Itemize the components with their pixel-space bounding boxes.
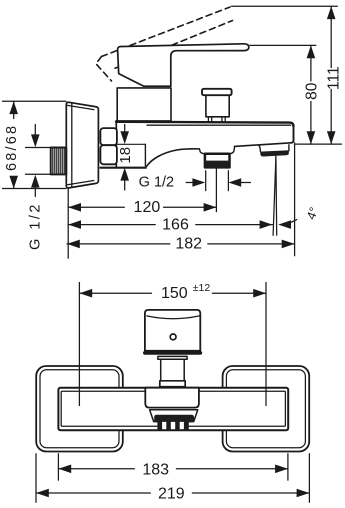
svg-text:18: 18: [117, 147, 134, 164]
aerator dark band: [205, 161, 230, 168]
escutcheon inner vertical line: [71, 103, 73, 187]
aerator edge extension lines: [205, 171, 207, 191]
dimension 111: [330, 6, 332, 144]
escutcheon inner top slant: [68, 105, 94, 109]
svg-text:111: 111: [325, 66, 342, 90]
pipe thread hatching: [53, 148, 65, 173]
right wall escutcheon front: [223, 366, 310, 452]
aerator ring: [205, 154, 230, 168]
dimension 18 leader: [124, 125, 126, 191]
body crossbar: [58, 388, 288, 431]
opposing arrow for 166 at 4deg lines: [278, 220, 291, 229]
150 extension lines: [78, 283, 80, 406]
svg-text:183: 183: [142, 462, 169, 479]
dimension 166: [68, 224, 272, 226]
body right extension line: [294, 143, 296, 256]
spout underside curve: [147, 149, 200, 166]
faucet body top edge: [116, 122, 294, 127]
svg-text:G 1/2: G 1/2: [139, 175, 174, 191]
dimension 150: [79, 292, 266, 294]
neck flare: [160, 381, 185, 387]
outlet lip right edge: [288, 145, 290, 151]
right escutcheon inner line: [226, 370, 305, 448]
svg-text:±12: ±12: [193, 282, 211, 294]
svg-text:166: 166: [162, 217, 189, 234]
body bottom slanted edge: [235, 143, 292, 147]
lower section bottom edge: [101, 167, 146, 169]
extension line from lever top: [250, 44, 316, 46]
escutcheon inner bottom slant: [68, 181, 94, 185]
dimension 68/68: [13, 101, 15, 188]
svg-text:80: 80: [304, 82, 321, 100]
219 extension lines: [35, 454, 37, 503]
G 1/2 aerator arrows: [186, 182, 197, 184]
svg-text:219: 219: [158, 486, 185, 503]
svg-text:150: 150: [161, 285, 188, 302]
mixer handle front: [145, 310, 200, 351]
aerator slot right: [180, 422, 184, 429]
pipe bottom extension line: [26, 173, 51, 175]
aerator flange: [199, 149, 204, 154]
hex nut lower flat: [100, 145, 117, 164]
wall face extension line: [67, 189, 69, 259]
G 1/2 threaded pipe: [51, 148, 67, 175]
body inner top line: [147, 124, 291, 126]
handle top inner arc: [147, 316, 200, 319]
4 degree indicator lines: [275, 156, 278, 235]
neck: [161, 359, 185, 381]
pipe top extension line: [26, 147, 51, 149]
dashed raised lever outline: [96, 7, 233, 81]
left bottom extension line: [3, 188, 67, 190]
svg-text:182: 182: [175, 236, 202, 253]
dimension 182: [67, 243, 295, 245]
diverter knob cap: [202, 89, 232, 95]
outlet lip dark band: [260, 150, 289, 156]
right base extension line: [295, 143, 342, 145]
diverter knob body: [206, 95, 229, 117]
body right edge: [291, 125, 294, 143]
spout lip front outline: [150, 410, 198, 422]
cartridge collar under handle: [117, 88, 171, 121]
diverter knob feet: [208, 117, 225, 123]
left top extension line: [3, 100, 67, 102]
svg-text:4°: 4°: [304, 205, 321, 221]
handle marker dot: [170, 334, 176, 340]
left escutcheon inner line: [40, 370, 119, 448]
outlet lip left edge: [259, 145, 261, 151]
G 1/2 leader left: [34, 125, 36, 197]
svg-text:120: 120: [134, 199, 161, 216]
dimension 120: [68, 206, 216, 208]
svg-text:68/68: 68/68: [4, 124, 20, 171]
body left edge: [115, 121, 117, 168]
dimension 80: [310, 45, 312, 144]
center housing box: [145, 388, 199, 408]
spout root vertical: [144, 144, 146, 166]
dimension 219: [36, 492, 309, 494]
aerator slot center: [171, 422, 175, 429]
handle bottom thick edge: [145, 351, 200, 355]
left wall escutcheon front: [36, 366, 123, 452]
svg-text:G 1/2: G 1/2: [28, 202, 44, 250]
dimension 183: [58, 468, 288, 470]
neck flange: [158, 356, 187, 359]
aerator front dark: [157, 420, 188, 430]
extension line from raised lever tip: [232, 5, 338, 7]
183 extension lines: [57, 454, 59, 480]
crossbar inner outline: [61, 391, 285, 426]
wall escutcheon side view: [66, 102, 98, 188]
aerator slot left: [162, 422, 166, 429]
handle with lever: [118, 44, 249, 86]
hex nut upper flat: [100, 128, 117, 145]
body lower ledge line (18 ref): [116, 143, 145, 145]
spout lip dark band: [154, 415, 194, 423]
aerator center extension line: [215, 169, 217, 212]
